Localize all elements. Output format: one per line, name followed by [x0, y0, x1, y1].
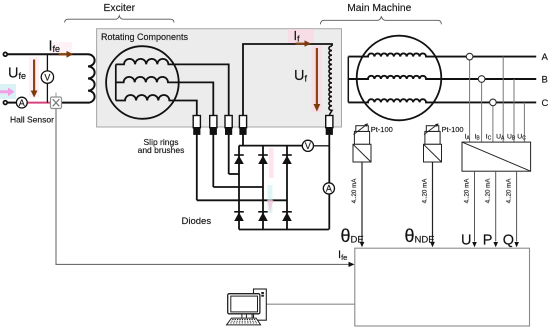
voltmeter V2: [302, 140, 313, 151]
monitor stand: [242, 314, 252, 318]
wire V meter to right line: [314, 145, 329, 147]
main machine circle: [357, 36, 442, 121]
wire brush3 phase line to leg1: [229, 173, 239, 175]
svg-text:Hall Sensor: Hall Sensor: [10, 115, 54, 125]
svg-text:U: U: [461, 233, 471, 249]
svg-text:A: A: [326, 184, 332, 194]
stator winding C + line C: [348, 99, 536, 102]
svg-text:Main Machine: Main Machine: [347, 3, 411, 14]
transducer output U: [474, 171, 476, 241]
wire brush5 down to bridge: [328, 135, 330, 183]
artifact pink ghost arrow left edge: [0, 90, 8, 93]
CT circle phase A: [466, 53, 473, 60]
svg-text:P: P: [483, 233, 493, 249]
artifact cyan streak bridge bottom: [268, 185, 273, 213]
ammeter A1: [16, 97, 27, 108]
CT circle phase B: [478, 76, 485, 83]
svg-text:B: B: [542, 75, 548, 86]
winding row 3 + wire to brush 1: [116, 95, 197, 200]
star bus main machine: [347, 57, 349, 103]
CT circle phase C: [490, 99, 497, 106]
artifact cyan smudge below U_fe: [0, 84, 16, 99]
tap line U_B: [513, 79, 515, 142]
svg-text:4..20 mA: 4..20 mA: [485, 178, 492, 204]
wire bottom: terminal to A meter: [7, 102, 16, 104]
wire brush2 phase line to leg2: [213, 186, 263, 188]
wire hall sensor to coil bottom: [62, 102, 89, 104]
computer tower: [254, 289, 267, 320]
svg-text:4..20 mA: 4..20 mA: [351, 178, 358, 204]
Pt-100 sensor 2: [425, 131, 440, 144]
svg-text:4..20 mA: 4..20 mA: [464, 178, 471, 204]
svg-text:UB: UB: [507, 133, 516, 141]
transducer box U1: [462, 142, 531, 171]
artifact pink halo I_f label: [288, 29, 314, 45]
wire top left to coil: [7, 53, 88, 55]
tap line U_C: [523, 102, 525, 142]
ammeter A2: [323, 183, 334, 194]
winding row 1 + wire to brush 3: [116, 59, 229, 174]
DAQ box: [355, 248, 530, 326]
exciter field coil L1: [88, 54, 95, 102]
svg-text:UA: UA: [496, 133, 505, 141]
brush 3: [225, 116, 232, 128]
svg-text:IA: IA: [465, 133, 471, 141]
arrow I_f (brown right): [296, 43, 305, 45]
computer monitor: [228, 294, 260, 314]
svg-text:IB: IB: [475, 133, 481, 141]
star bus exciter armature: [115, 64, 117, 100]
terminal top-left: [3, 52, 7, 56]
svg-text:V: V: [305, 141, 311, 151]
wire A meter to hall sensor (magenta artifact): [27, 102, 50, 104]
svg-text:Q: Q: [503, 233, 514, 249]
brush 2: [210, 116, 217, 128]
wire brush1 phase line to leg3: [197, 199, 287, 201]
artifact pink halo I_fe label: [50, 42, 72, 56]
svg-text:C: C: [542, 98, 549, 109]
bridge leg 2: [262, 146, 264, 230]
artifact pink halo U_f arrow: [312, 46, 322, 112]
wire V branch upper: [46, 54, 48, 71]
keyboard: [227, 318, 261, 325]
brace exciter: [65, 16, 174, 23]
svg-text:and brushes: and brushes: [138, 145, 185, 155]
bridge bottom rail: [239, 229, 329, 231]
tap line I_A: [469, 60, 471, 142]
svg-text:Pt-100: Pt-100: [442, 125, 464, 134]
brush 4: [239, 116, 246, 128]
artifact pink halo U_fe arrow: [29, 57, 39, 97]
diode top leg 3: [282, 154, 292, 156]
diode bottom leg 2: [258, 211, 268, 213]
voltmeter V1: [41, 71, 53, 83]
bridge leg 3: [286, 146, 288, 230]
brush 1: [193, 116, 200, 128]
arrow U_f (brown down): [316, 48, 318, 104]
computer connection line: [266, 303, 355, 305]
svg-text:4..20 mA: 4..20 mA: [422, 178, 429, 204]
bridge top rail: [239, 145, 302, 147]
exciter rotating components box: [97, 29, 342, 127]
svg-text:IC: IC: [486, 133, 492, 141]
svg-text:Rotating Components: Rotating Components: [101, 32, 189, 42]
diode top leg 1: [234, 154, 244, 156]
svg-text:V: V: [44, 72, 50, 82]
stator winding B + line B: [348, 76, 536, 79]
diode bottom leg 3: [282, 211, 292, 213]
tap line I_B: [481, 82, 483, 142]
svg-text:A: A: [542, 52, 549, 63]
brush 5: [326, 116, 333, 128]
hall sensor box: [55, 93, 57, 98]
terminal bottom-left: [3, 101, 7, 105]
wire V branch lower: [46, 83, 48, 102]
sensor 1 output line: [361, 162, 363, 242]
transducer output Q: [516, 171, 518, 241]
svg-text:UC: UC: [517, 133, 526, 141]
rotating components circle: [106, 46, 179, 119]
Pt-100 sensor 1: [354, 131, 369, 144]
main field coil U_f: [329, 46, 332, 115]
svg-text:4..20 mA: 4..20 mA: [506, 178, 513, 204]
tap line U_A: [502, 57, 504, 143]
arrow U_fe (brown down): [33, 60, 35, 91]
bridge leg 1: [238, 146, 240, 230]
wire brush4 up and across (I_f line): [243, 44, 332, 146]
transducer output P: [495, 171, 497, 241]
tap line I_C: [492, 106, 494, 142]
stator winding A + line A: [348, 53, 536, 56]
svg-text:Exciter: Exciter: [104, 3, 136, 14]
diode bottom leg 1: [234, 211, 244, 213]
artifact pink streak bridge top: [269, 148, 274, 178]
svg-text:Pt-100: Pt-100: [371, 125, 393, 134]
svg-text:A: A: [19, 98, 25, 108]
I_fe measurement line from hall sensor: [56, 109, 349, 265]
diode top leg 2: [258, 154, 268, 156]
winding row 2 + wire to brush 2: [116, 77, 214, 187]
sensor 2 output line: [432, 162, 434, 242]
svg-text:Diodes: Diodes: [182, 216, 212, 227]
arrow I_fe (brown right): [59, 53, 67, 55]
brace main machine: [320, 16, 441, 24]
